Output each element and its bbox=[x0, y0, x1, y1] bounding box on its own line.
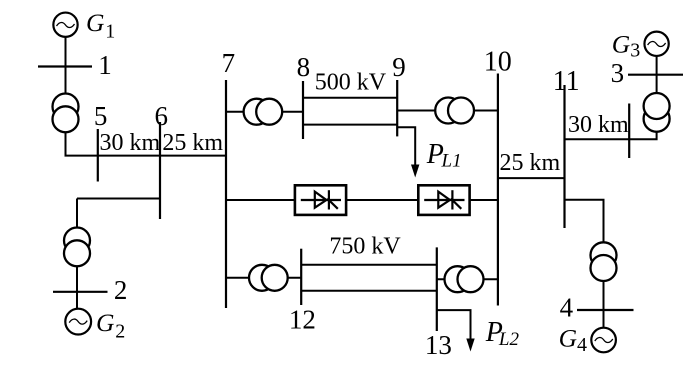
transformer T3 bbox=[644, 93, 670, 132]
arrow PL1 bbox=[411, 165, 419, 178]
svg-text:1: 1 bbox=[98, 50, 112, 80]
wire 750 kV line upper circuit bbox=[301, 264, 437, 266]
wire 500 kV line upper circuit bbox=[303, 97, 397, 99]
svg-text:L2: L2 bbox=[498, 329, 520, 350]
svg-text:3: 3 bbox=[611, 58, 625, 88]
svg-text:750 kV: 750 kV bbox=[329, 234, 401, 260]
transformer T78 bbox=[244, 99, 283, 125]
svg-text:L1: L1 bbox=[441, 151, 462, 172]
label G1 bbox=[86, 8, 115, 43]
node tick on 30 km line bbox=[628, 104, 630, 159]
wire bus13 to bus10 through T1310 bbox=[437, 278, 498, 280]
wire lower-left line bus6 to G2 branch bbox=[77, 198, 160, 200]
svg-text:4: 4 bbox=[560, 293, 574, 323]
svg-text:8: 8 bbox=[297, 52, 311, 82]
svg-text:G: G bbox=[96, 308, 114, 337]
svg-text:G: G bbox=[612, 30, 630, 59]
node bus 5 tick bbox=[97, 129, 99, 182]
svg-text:25 km: 25 km bbox=[500, 150, 561, 176]
svg-text:3: 3 bbox=[630, 40, 640, 62]
wire load tap PL1 bbox=[397, 127, 415, 166]
svg-text:1: 1 bbox=[105, 20, 115, 42]
bus 3 bbox=[628, 74, 683, 76]
transformer T4 bbox=[591, 242, 617, 281]
wire T3 through bus 3 to G3 bbox=[656, 56, 658, 93]
wire 30 km line bus11 to T3 branch bbox=[565, 132, 657, 139]
bus 4 bbox=[577, 309, 634, 311]
transformer T1310 bbox=[445, 266, 484, 292]
wire 25 km line bus10 to bus11 bbox=[498, 177, 565, 179]
svg-text:2: 2 bbox=[115, 320, 125, 342]
node bus 7 bbox=[225, 80, 227, 308]
label G3 bbox=[612, 30, 640, 62]
generator G4 bbox=[591, 328, 616, 353]
wire HVDC line bus7 to converter box 1 bbox=[226, 199, 295, 201]
svg-text:25 km: 25 km bbox=[162, 130, 223, 156]
bus 2 bbox=[53, 291, 108, 293]
wire T1 down to left main line bbox=[65, 132, 67, 155]
node bus 10 bbox=[497, 74, 499, 306]
wire bus7 to bus12 through T712 bbox=[226, 277, 301, 279]
node bus 11 bbox=[563, 85, 565, 228]
svg-text:30 km: 30 km bbox=[568, 112, 629, 138]
svg-text:7: 7 bbox=[222, 48, 236, 78]
label PL1 bbox=[426, 139, 462, 172]
wire HVDC line between converter boxes bbox=[346, 199, 418, 201]
svg-text:11: 11 bbox=[553, 66, 580, 97]
svg-text:2: 2 bbox=[114, 275, 128, 305]
arrow PL2 bbox=[466, 339, 474, 352]
generator G3 bbox=[644, 32, 668, 56]
generator G1 bbox=[53, 13, 77, 37]
converter valve box V1 bbox=[295, 185, 346, 215]
wire down to transformer T2 bbox=[76, 199, 78, 229]
node bus 13 bbox=[436, 247, 438, 331]
svg-text:G: G bbox=[86, 8, 104, 37]
svg-text:10: 10 bbox=[484, 46, 512, 77]
wire 500 kV line lower circuit bbox=[303, 124, 397, 126]
node bus 6 tick bbox=[159, 122, 161, 219]
node bus 12 bbox=[300, 249, 302, 305]
svg-text:30 km: 30 km bbox=[100, 130, 161, 156]
svg-text:13: 13 bbox=[425, 330, 452, 360]
wire left main line (bus5/bus6 line to bus 7) bbox=[65, 155, 227, 157]
converter valve box V2 bbox=[418, 185, 469, 215]
label G4 bbox=[559, 323, 587, 356]
wire G1 to bus 1 to transformer T1 bbox=[65, 37, 67, 94]
wire T4 through bus 4 to G4 bbox=[603, 281, 605, 328]
svg-text:6: 6 bbox=[154, 101, 168, 131]
svg-text:9: 9 bbox=[392, 52, 406, 82]
wire bus9 to bus10 through T910 bbox=[397, 110, 498, 112]
label G2 bbox=[96, 308, 125, 343]
transformer T2 bbox=[64, 228, 90, 267]
svg-text:G: G bbox=[559, 323, 577, 352]
svg-text:4: 4 bbox=[577, 334, 587, 356]
generator G2 bbox=[65, 309, 91, 335]
svg-text:12: 12 bbox=[289, 305, 316, 335]
transformer T712 bbox=[249, 265, 288, 291]
svg-text:500 kV: 500 kV bbox=[315, 69, 387, 95]
svg-text:5: 5 bbox=[94, 101, 108, 131]
transformer T1 bbox=[53, 94, 79, 133]
wire T2 to bus 2 to G2 bbox=[76, 266, 78, 308]
wire 750 kV line lower circuit bbox=[301, 290, 437, 292]
label PL2 bbox=[485, 317, 520, 350]
wire bus11 to T4 branch bbox=[565, 200, 604, 243]
node bus 9 bbox=[396, 80, 398, 136]
wire bus7 to bus8 through T78 bbox=[226, 111, 303, 113]
wire HVDC line box2 to bus 10 bbox=[470, 199, 498, 201]
transformer T910 bbox=[435, 98, 474, 124]
node bus 8 bbox=[302, 81, 304, 139]
wire load tap PL2 bbox=[437, 310, 471, 338]
bus 1 bbox=[38, 65, 92, 67]
